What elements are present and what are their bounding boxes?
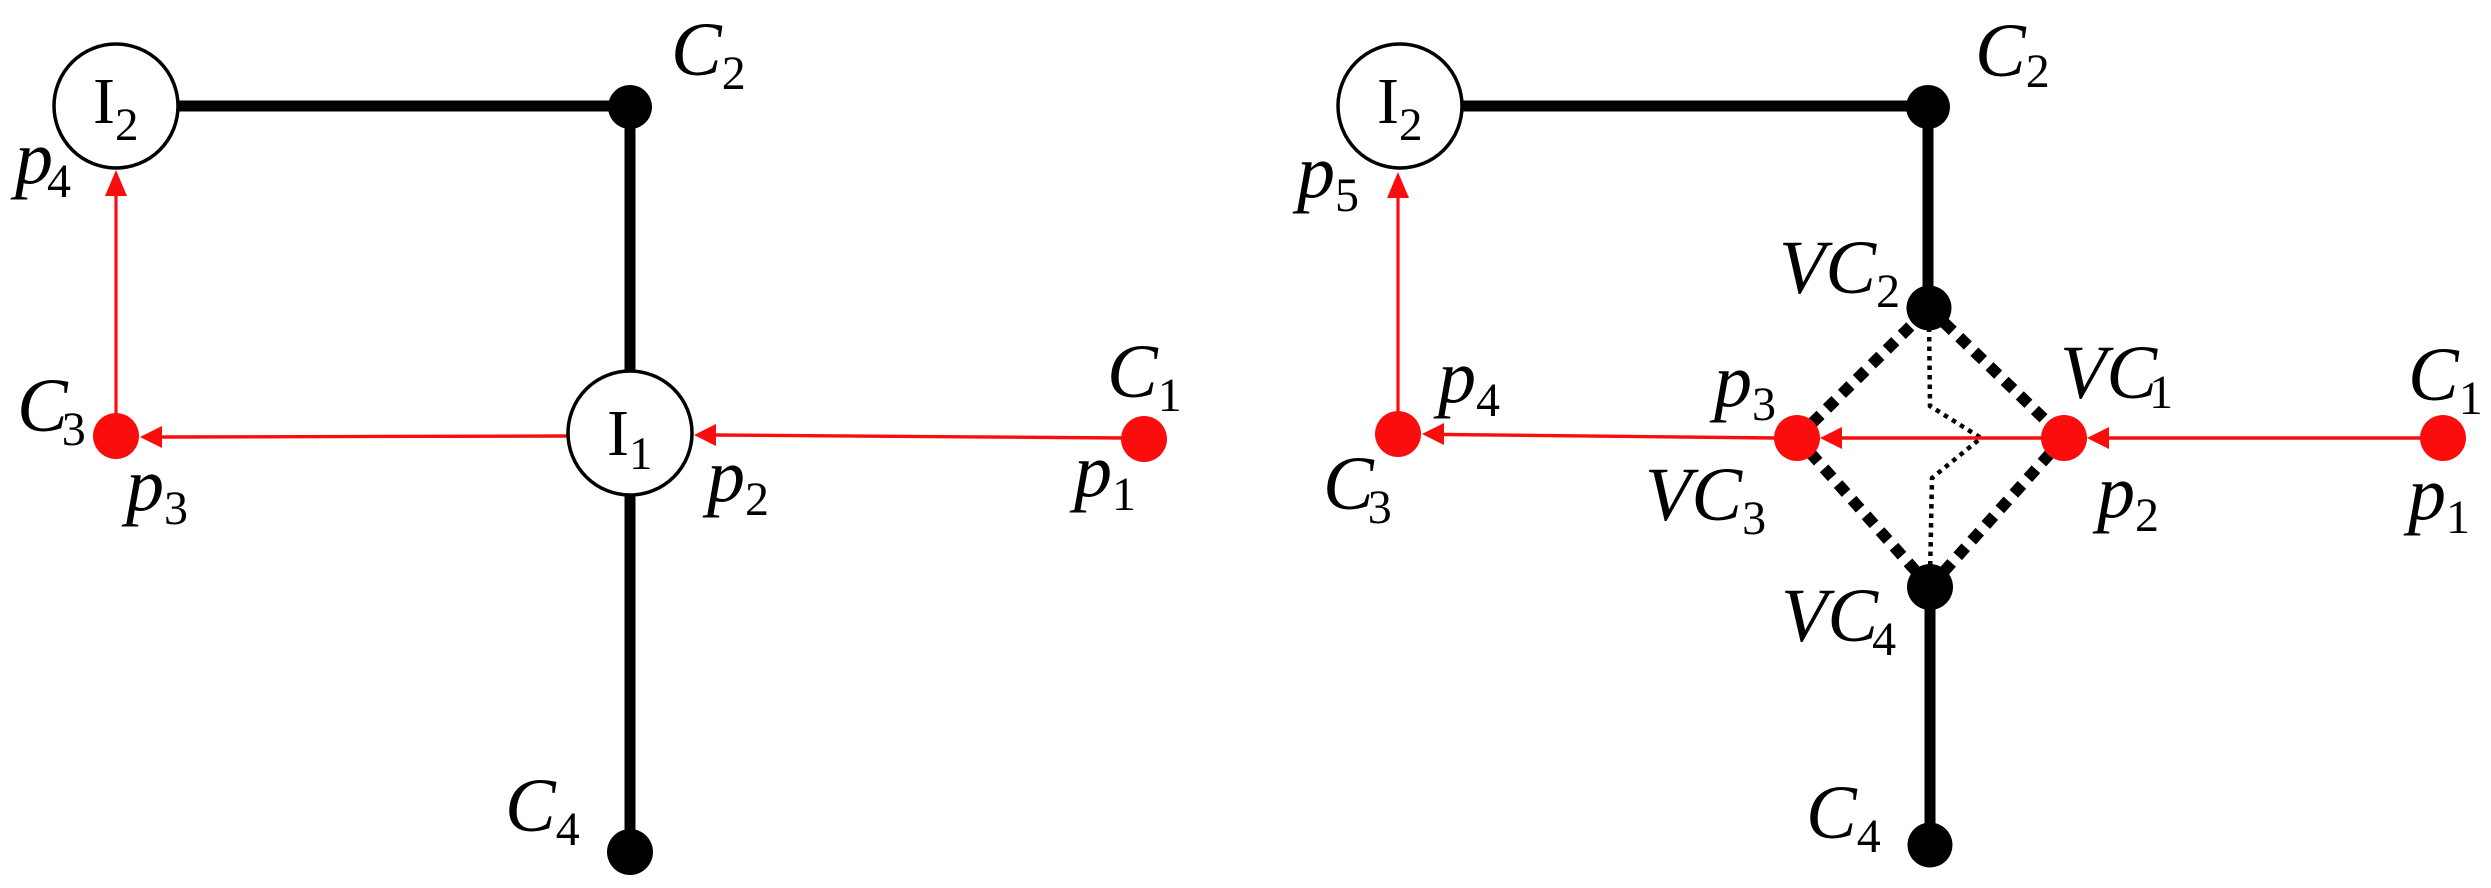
dashed edge VC2-VC1 (diamond) <box>1929 308 2064 438</box>
svg-text:VC1: VC1 <box>2060 331 2173 419</box>
node C2 (right, black dot) <box>1906 85 1950 129</box>
node VC4 (black dot) <box>1907 564 1953 610</box>
node C3 (left, red dot) <box>93 413 139 459</box>
node C2 (left, black dot) <box>608 85 652 129</box>
wire VC4-C4 (right, thick) <box>1925 587 1936 845</box>
node I2 (left, circle) <box>54 44 178 168</box>
dashed edge VC3-VC2 (diamond) <box>1797 308 1929 438</box>
node VC2 (black dot) <box>1907 286 1952 331</box>
wire C2-I1 (left, thick) <box>625 106 636 372</box>
wire C2-VC2 (right, thick) <box>1923 106 1934 308</box>
wire arrow p2 to p3 (right, red) <box>1820 427 2042 449</box>
wire arrow C3 to I2 (left, red) <box>105 170 127 416</box>
wire arrow C3 to I2 (right, red) <box>1387 172 1409 413</box>
node I2 (right, circle) <box>1338 44 1462 168</box>
node C4 (left, black dot) <box>607 829 653 875</box>
wire arrow C1 to I1 (left, red) <box>694 424 1124 446</box>
node p2/VC1 (red dot) <box>2041 415 2087 461</box>
wire arrow I1 to C3 (left, red) <box>140 426 568 448</box>
node C1 (left, red dot) <box>1121 416 1167 462</box>
wire I2-C2 (left, thick) <box>172 101 630 112</box>
dashed edge VC4-VC3 (diamond) <box>1797 438 1930 587</box>
node C3 (right, red dot) <box>1375 411 1421 457</box>
wire arrow C1 to p2 (right, red) <box>2087 427 2421 449</box>
node I1 (left, circle) <box>568 371 692 495</box>
node p3/VC3 (red dot) <box>1774 415 1820 461</box>
wire I1-C4 (left, thick) <box>625 495 636 852</box>
node C1 (right, red dot) <box>2420 415 2466 461</box>
wire I2-C2 (right, thick) <box>1456 101 1928 112</box>
wire arrow p3 to C3 (right, red) <box>1422 423 1776 445</box>
dashed edge VC1-VC4 (diamond) <box>1930 438 2064 587</box>
dotted inner link VC2-VC4 (zigzag) <box>1929 318 1981 577</box>
node C4 (right, black dot) <box>1908 823 1953 868</box>
